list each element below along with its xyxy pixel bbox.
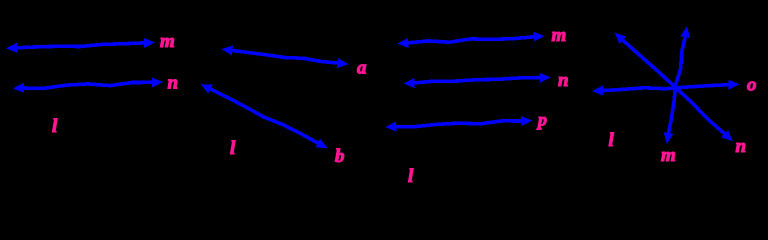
svg-text:n: n bbox=[558, 70, 569, 91]
line n (fig 4) bbox=[615, 33, 733, 141]
line m (fig 1) bbox=[6, 38, 155, 53]
line m (fig 4) bbox=[664, 26, 690, 144]
svg-text:m: m bbox=[160, 31, 175, 52]
svg-text:l: l bbox=[408, 166, 414, 187]
line p (fig 3) bbox=[385, 116, 532, 132]
svg-text:m: m bbox=[661, 145, 676, 166]
svg-text:b: b bbox=[335, 146, 345, 167]
svg-text:p: p bbox=[536, 110, 547, 130]
svg-text:l: l bbox=[609, 130, 615, 151]
line a (fig 2) bbox=[222, 45, 349, 68]
svg-text:o: o bbox=[747, 75, 757, 96]
line m (fig 3) bbox=[397, 32, 544, 48]
svg-text:n: n bbox=[168, 73, 179, 94]
svg-text:n: n bbox=[736, 136, 747, 157]
svg-text:l: l bbox=[230, 138, 236, 159]
line n (fig 1) bbox=[13, 78, 163, 93]
svg-text:m: m bbox=[552, 25, 567, 46]
line o (fig 4) bbox=[592, 80, 739, 96]
svg-text:l: l bbox=[52, 116, 58, 137]
line b (fig 2) bbox=[201, 84, 328, 148]
svg-text:a: a bbox=[357, 58, 367, 79]
line n (fig 3) bbox=[404, 73, 551, 88]
